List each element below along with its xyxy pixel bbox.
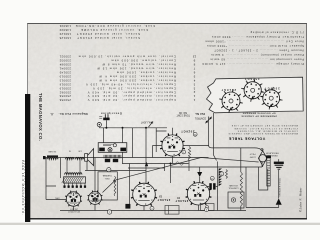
svg-text:REGULATOR: REGULATOR	[265, 151, 278, 154]
wire antenna to volume bus	[171, 161, 262, 167]
part bubble 15	[193, 132, 197, 136]
junction	[105, 127, 107, 129]
svg-text:160129: 160129	[59, 32, 71, 36]
capacitor C1	[165, 206, 179, 215]
part bubble 3	[205, 208, 209, 212]
svg-text:Capacitor, molded paper, .05 m: Capacitor, molded paper, .05 mfd. 400 V	[87, 90, 176, 94]
frame bottom border	[27, 218, 307, 220]
svg-text:(*) D.C. resistance of winding: (*) D.C. resistance of winding	[250, 31, 304, 35]
wire U loop	[259, 167, 268, 190]
bottom bus wire	[60, 210, 246, 212]
svg-text:Transformer: Primary impedance: Transformer: Primary impedance .........…	[211, 35, 304, 39]
svg-text:230013: 230013	[59, 78, 71, 82]
thermal resistor R5 box	[98, 172, 117, 200]
frame top border	[27, 23, 307, 25]
wire x170 drop	[170, 164, 172, 184]
capacitor C2	[201, 204, 215, 211]
svg-text:Resistor, wire wound, 75 ohm 8: Resistor, wire wound, 75 ohm 8 W	[101, 63, 176, 67]
svg-text:25L6GT: 25L6GT	[220, 88, 236, 92]
svg-text:RESISTOR: RESISTOR	[266, 154, 277, 156]
rectifier tube V3 25Z6GT	[160, 134, 185, 157]
svg-text:Power consumption ............: Power consumption ......................…	[210, 58, 304, 62]
svg-text:Resistor, carbon, 250,000 ohm: Resistor, carbon, 250,000 ohm ¼ W	[98, 78, 176, 82]
wire ground stem with label	[278, 170, 280, 198]
svg-text:Voice Coil ...................: Voice Coil .............................…	[205, 40, 304, 44]
wire line bus y157.5	[85, 157, 209, 159]
wire bus y163	[122, 163, 189, 165]
wire right staircase	[245, 167, 247, 208]
AC line plug P1	[99, 114, 109, 128]
svg-text:THE MAGNAVOX CO.: THE MAGNAVOX CO.	[38, 93, 43, 141]
part bubble 12	[210, 176, 214, 180]
volume control R9	[217, 162, 219, 211]
wire switch drop	[208, 117, 210, 146]
ground triangle at output tube	[197, 172, 202, 177]
svg-text:250056: 250056	[59, 98, 71, 102]
svg-text:PILOT: PILOT	[249, 153, 256, 155]
speaker socket J2	[87, 191, 102, 205]
coupling capacitor C12	[206, 183, 218, 189]
scanned next-page edge band	[0, 223, 320, 225]
paper streaks	[62, 23, 96, 219]
dial lamp I2 (circle in diamond)	[258, 151, 267, 166]
part bubble 9	[220, 172, 224, 176]
svg-text:Power output (maximum) .......: Power output (maximum) .................…	[211, 53, 304, 57]
output transformer T1 secondary	[65, 173, 83, 175]
wires rectifier	[133, 128, 173, 164]
svg-text:230021: 230021	[59, 55, 71, 59]
antenna lead wire (diagonal)	[116, 158, 259, 181]
svg-text:13: 13	[193, 55, 197, 59]
frame left border (thin upper)	[27, 23, 29, 97]
svg-text:©John F. Rider: ©John F. Rider	[298, 187, 302, 212]
ballast resistor R7 (ladder)	[266, 155, 271, 186]
chassis ground symbol (solid triangle)	[276, 198, 282, 204]
svg-text:146033: 146033	[59, 28, 71, 32]
part bubble 1	[107, 210, 111, 214]
hum bucking coil L2	[66, 157, 74, 159]
part bubble 11	[107, 168, 111, 172]
svg-text:25L6GT: 25L6GT	[157, 198, 170, 202]
pilot lamp I1	[97, 123, 101, 127]
twisted pair squiggle	[176, 162, 184, 165]
svg-text:GRN: GRN	[55, 196, 60, 198]
svg-text:146034: 146034	[59, 24, 71, 28]
tone control box	[228, 192, 244, 208]
output tube V1 25L6GT	[131, 182, 157, 206]
svg-text:25Z6GT: 25Z6GT	[244, 77, 260, 81]
svg-text:230145: 230145	[59, 71, 71, 75]
svg-text:Resistor, carbon, 250,000 ohm: Resistor, carbon, 250,000 ohm ¼ W	[98, 74, 176, 78]
tube socket 25L6GT (layout view)	[260, 87, 283, 110]
svg-text:Capacitor, molded paper, .02 m: Capacitor, molded paper, .02 mfd. 600 V	[87, 94, 176, 98]
svg-text:CONTROL: CONTROL	[194, 117, 206, 119]
volume element	[240, 172, 242, 206]
svg-text:Capacitor, electrolytic, 40-40: Capacitor, electrolytic, 40-40 mfd. 150 …	[85, 82, 176, 86]
svg-text:230041: 230041	[59, 67, 71, 71]
svg-text:Part No.: Part No.	[195, 112, 206, 116]
tube layout chassis diagram	[207, 77, 304, 113]
svg-text:Speaker: Field Coil ..........: Speaker: Field Coil ....................…	[206, 44, 304, 48]
svg-text:230084: 230084	[59, 63, 71, 67]
svg-text:Magnavox Part No.: Magnavox Part No.	[58, 112, 87, 116]
svg-text:250056: 250056	[59, 94, 71, 98]
svg-text:25Z6GT: 25Z6GT	[181, 130, 195, 134]
svg-text:VOLUME: VOLUME	[229, 184, 238, 186]
svg-text:Resistor, carbon, 1000 ohm: Resistor, carbon, 1000 ohm	[116, 71, 176, 75]
wire bus y170	[85, 161, 146, 170]
svg-text:25L6GT: 25L6GT	[264, 87, 280, 91]
wire rectifier plate to switch line	[183, 145, 209, 147]
svg-text:MEASURED WITH SET OPERATING AT: MEASURED WITH SET OPERATING AT LINE	[231, 124, 298, 127]
svg-text:230019: 230019	[59, 86, 71, 90]
svg-text:Capacitor, molded paper, .02 m: Capacitor, molded paper, .02 mfd. 600 V	[87, 98, 176, 102]
wire drop right of thermal box	[129, 164, 131, 205]
svg-text:VOLTAGE TABLE: VOLTAGE TABLE	[228, 136, 265, 140]
svg-text:TONE CONT.: TONE CONT.	[176, 114, 190, 116]
page background	[27, 23, 307, 219]
svg-text:OF SOCKETS BENEATH: OF SOCKETS BENEATH	[242, 112, 275, 115]
wire to C3	[104, 128, 123, 164]
tube socket 25Z6GT (layout view)	[241, 79, 264, 102]
svg-text:RES.: RES.	[104, 177, 109, 179]
speaker cone	[85, 149, 94, 166]
resistor R4 (zigzag right of rectifier)	[188, 147, 190, 161]
svg-text:15 OHM: 15 OHM	[48, 150, 56, 152]
tube socket 25L6GT (layout view)	[219, 89, 243, 113]
frame left heavy black bar	[25, 94, 30, 222]
speaker plug J1 (socket view)	[65, 191, 82, 207]
paper blotches	[25, 155, 115, 215]
svg-text:Knob, control grooved OFF-ON-T: Knob, control grooved OFF-ON-TONE	[75, 24, 155, 28]
output tube V2 25L6GT	[186, 181, 212, 205]
svg-text:Description: Description	[100, 111, 121, 115]
svg-text:UNDERSIDE OF CHASSIS: UNDERSIDE OF CHASSIS	[241, 115, 277, 118]
svg-text:SW. ON: SW. ON	[179, 111, 188, 113]
wire AC bus	[99, 127, 167, 128]
svg-text:Resistor, wire wound, 136 ohm: Resistor, wire wound, 136 ohm 15 W	[96, 67, 176, 71]
wire speaker loop left	[46, 158, 67, 200]
grid arrow (connection to grid)	[145, 162, 148, 166]
svg-text:Socket, octal molded 25L6GT: Socket, octal molded 25L6GT	[76, 36, 140, 40]
wire switch drop 2	[214, 113, 217, 161]
resistor R6	[226, 170, 228, 179]
part bubble 2	[150, 206, 154, 210]
svg-text:VOLTAGE OF 117 VOLTS AC-DC, VO: VOLTAGE OF 117 VOLTS AC-DC, VOLUME	[234, 127, 298, 130]
svg-text:Primary voltage ..............: Primary voltage ........................…	[201, 62, 304, 66]
svg-text:25L6GT: 25L6GT	[175, 199, 188, 203]
field coil L1	[47, 157, 58, 159]
wire V2 drop to output tube	[145, 128, 147, 184]
svg-text:Knob, control grooved VOLUME: Knob, control grooved VOLUME	[80, 28, 148, 32]
svg-text:230010: 230010	[59, 74, 71, 78]
svg-text:-6-: -6-	[50, 112, 54, 116]
wirewound resistor R8 (sawtooth)	[219, 169, 222, 172]
svg-text:160126: 160126	[59, 36, 71, 40]
svg-text:Capacitor, electrolytic, 20 mf: Capacitor, electrolytic, 20 mfd. 150 V	[92, 86, 176, 90]
switch S1	[206, 121, 208, 123]
field supply ground stack	[274, 159, 284, 169]
svg-text:230032: 230032	[59, 59, 71, 63]
wire switch to pilot lamp	[209, 145, 262, 150]
svg-text:LIGHT: LIGHT	[249, 155, 256, 157]
part bubble 7	[182, 150, 186, 154]
svg-text:Vacuum Tubes ............. 2 -: Vacuum Tubes ............. 2 - 25L6GT ; …	[214, 49, 304, 53]
electrolytic capacitor C3 40-40 mfd	[98, 143, 127, 153]
svg-text:MEASURED BETWEEN SOCKET AND CH: MEASURED BETWEEN SOCKET AND CHASSIS	[228, 132, 298, 135]
svg-text:CONTROL: CONTROL	[228, 187, 239, 189]
svg-text:230018: 230018	[59, 82, 71, 86]
wire y168 segment	[128, 164, 165, 172]
wire to speaker socket J2	[94, 158, 96, 192]
line switch / tone control assembly	[104, 155, 121, 162]
svg-text:MODEL 25B8 CH. 25 SER.: MODEL 25B8 CH. 25 SER.	[24, 160, 28, 213]
svg-text:CONTROL AT MINIMUM. ALL VOLTAG: CONTROL AT MINIMUM. ALL VOLTAGES	[237, 129, 298, 132]
voice coil L3	[76, 157, 84, 159]
svg-text:SPEAKER FIELD: SPEAKER FIELD	[279, 177, 282, 196]
svg-text:250062: 250062	[59, 90, 71, 94]
svg-text:THERMAL: THERMAL	[101, 174, 111, 177]
svg-text:Socket, octal molded 25Z6GT: Socket, octal molded 25Z6GT	[76, 32, 140, 36]
frame right border	[306, 23, 308, 219]
output transformer T1 primary (hatched)	[64, 177, 86, 183]
svg-text:Control, volume, 500,000 ohm: Control, volume, 500,000 ohm	[110, 59, 176, 63]
speaker field coil row wire	[44, 157, 86, 159]
transformer taps	[63, 183, 86, 188]
svg-text:Control, tone with power switc: Control, tone with power switch, 10,000 …	[78, 55, 176, 59]
